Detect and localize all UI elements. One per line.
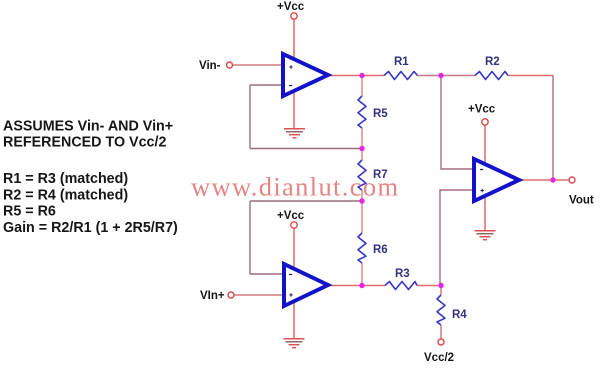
- wire U2 feedback: to R7/R6 node: [250, 200, 362, 202]
- wire U1 output node down to R5: [361, 76, 363, 97]
- op-amp U2 + input mark: [289, 293, 292, 296]
- wire +Vcc terminal to U1: [293, 20, 295, 61]
- svg-text:+Vcc: +Vcc: [277, 1, 305, 13]
- svg-text:ASSUMES Vin- AND Vin+: ASSUMES Vin- AND Vin+: [3, 119, 173, 135]
- svg-text:R5 = R6: R5 = R6: [3, 204, 56, 220]
- wire R5 bottom to node B: [361, 128, 363, 160]
- terminal Vout: [569, 177, 575, 183]
- wire node A to R2: [441, 75, 475, 77]
- node U1 output junction: [359, 73, 364, 78]
- wire Vin- to op-amp U1 + input: [233, 64, 285, 66]
- resistor R3: [385, 282, 417, 290]
- wire node A down to U3 - input: [441, 76, 474, 170]
- wire +Vcc terminal to U3: [484, 126, 486, 166]
- node D (R3/R4 junction): [438, 283, 443, 288]
- wire R3 to node D: [417, 285, 441, 287]
- node Vout junction: [550, 177, 555, 182]
- resistor R6: [358, 233, 366, 263]
- svg-text:R2 = R4 (matched): R2 = R4 (matched): [3, 188, 128, 204]
- svg-text:R2: R2: [485, 56, 500, 68]
- svg-text:R1: R1: [394, 56, 409, 68]
- terminal Vin-: [227, 62, 233, 68]
- wire VIn+ to op-amp U2 + input: [234, 294, 284, 296]
- svg-text:+Vcc: +Vcc: [468, 104, 496, 116]
- wire U1 output row: [328, 75, 384, 77]
- resistor R1: [384, 72, 418, 80]
- wire U3 + input down to R3/R4 node: [440, 190, 474, 286]
- svg-text:R3: R3: [395, 268, 410, 280]
- wire U2 to ground: [293, 301, 295, 338]
- resistor R4: [437, 295, 445, 325]
- svg-text:R1 = R3 (matched): R1 = R3 (matched): [3, 171, 128, 187]
- wire U3 to ground: [484, 196, 486, 230]
- svg-text:VIn+: VIn+: [200, 290, 225, 302]
- node C (R7/R6 junction): [359, 198, 364, 203]
- wire node D down to R4: [440, 286, 442, 296]
- node B (R5/R7 junction): [359, 146, 364, 151]
- op-amp U2 - input mark: [289, 274, 292, 276]
- ground (U2): [284, 339, 305, 348]
- op-amp U1 - input mark: [289, 85, 292, 87]
- wire R2 to right rail: [508, 75, 553, 77]
- wire R1 to node A: [418, 75, 442, 77]
- wire U3 output to Vout: [519, 179, 569, 181]
- resistor R2: [475, 72, 508, 80]
- op-amp U3 - input mark: [480, 169, 483, 171]
- wire R6 bottom to U2 output row: [361, 263, 363, 286]
- wire U2 feedback: vertical up: [249, 201, 251, 274]
- wire U1 feedback: to R5/R7 node: [250, 148, 362, 150]
- terminal +Vcc (U1): [291, 13, 297, 19]
- resistor R5: [358, 96, 366, 128]
- op-amp U3: [474, 159, 519, 201]
- svg-text:Vin-: Vin-: [199, 60, 221, 72]
- ground (U3): [475, 231, 496, 240]
- svg-text:REFERENCED TO Vcc/2: REFERENCED TO Vcc/2: [3, 135, 166, 151]
- svg-text:www.dianlut.com: www.dianlut.com: [191, 172, 399, 202]
- terminal Vcc/2: [438, 339, 444, 345]
- wire +Vcc terminal to U2: [293, 229, 295, 271]
- ground (U1): [284, 129, 305, 138]
- node U2 output junction: [359, 283, 364, 288]
- svg-text:+Vcc: +Vcc: [277, 210, 305, 222]
- op-amp U2: [284, 264, 328, 306]
- wire R7 bottom to node C: [361, 190, 363, 233]
- wire U1 feedback: - input left: [250, 84, 284, 86]
- wire R4 to Vcc/2 terminal: [440, 325, 442, 339]
- svg-text:R4: R4: [452, 309, 467, 321]
- terminal VIn+: [228, 292, 234, 298]
- wire U2 feedback: - input left: [250, 273, 284, 275]
- op-amp U3 + input mark: [481, 189, 484, 192]
- op-amp U1: [283, 54, 328, 96]
- node A (R1/R2 junction): [438, 73, 443, 78]
- wire right rail vertical: [552, 76, 554, 181]
- svg-text:R6: R6: [373, 244, 388, 256]
- svg-text:R5: R5: [373, 108, 388, 120]
- wire U2 output row to R3: [328, 285, 385, 287]
- wire U1 feedback: vertical down: [249, 85, 251, 149]
- svg-text:Gain = R2/R1 (1 + 2R5/R7): Gain = R2/R1 (1 + 2R5/R7): [3, 220, 178, 236]
- resistor R7: [358, 160, 366, 190]
- svg-text:Vcc/2: Vcc/2: [424, 352, 454, 364]
- op-amp U1 + input mark: [289, 65, 292, 68]
- terminal +Vcc (U2): [291, 222, 297, 228]
- svg-text:Vout: Vout: [569, 195, 594, 207]
- terminal +Vcc (U3): [482, 119, 488, 125]
- wire U1 to ground: [293, 91, 295, 128]
